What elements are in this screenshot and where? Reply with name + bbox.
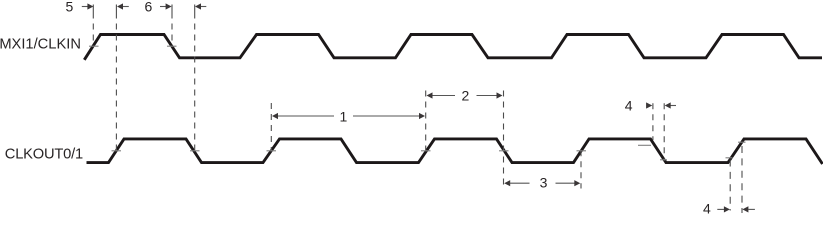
dimension 6 right arrow [195,3,206,9]
svg-text:3: 3 [540,175,548,191]
tick CLKOUT rise 4 midpoint [577,150,587,152]
tick CLKOUT rise 1 midpoint [112,150,122,152]
dimension 5 left arrow [82,3,94,9]
svg-text:4: 4 [625,97,633,113]
svg-text:MXI1/CLKIN: MXI1/CLKIN [0,36,81,52]
tick CLKOUT fall 4 upper reference [638,144,651,146]
tick CLKOUT fall 3 midpoint [499,150,509,152]
dimension 4 top right arrow [665,102,676,108]
dashed line A (CLKIN rise 1 midpoint, x=93.3) [92,5,94,47]
dashed line B (CLKOUT rise 1 midpoint, x=116.4) [115,5,117,151]
tick CLKOUT rise 5 upper reference [738,141,746,143]
dashed line H (CLKOUT rise 4 midpoint, x=581) [580,150,582,188]
waveform CLKOUT0/1 [87,139,823,164]
svg-text:CLKOUT0/1: CLKOUT0/1 [5,146,83,162]
dashed line L (CLKOUT rise 5 end, x=742.3) [741,146,743,213]
tick CLKOUT fall 1 midpoint [190,150,200,152]
dimension 3 arrow [504,180,580,186]
dashed line D (CLKOUT fall 1 midpoint, x=194.7) [194,5,196,151]
svg-text:6: 6 [145,0,153,15]
dashed line I (CLKOUT fall 4 start, x=652.7) [652,103,654,140]
dimension 4 bottom left arrow [717,206,730,212]
waveform MXI1/CLKIN [84,35,822,60]
svg-text:5: 5 [66,0,74,15]
tick CLKOUT rise 3 midpoint [421,150,431,152]
dashed line C (CLKIN fall 1 midpoint, x=172) [171,5,173,47]
tick CLKIN fall 1 midpoint [167,45,177,47]
tick CLKOUT rise 5 lower reference [726,157,733,159]
dimension 2 arrow [427,92,503,98]
dimension 5 right arrow [117,3,129,9]
dashed line G (CLKOUT fall 3 midpoint, x=503.5) [503,88,505,189]
dashed line F (CLKOUT rise 3 midpoint, x=425.7) [425,88,427,151]
dashed line K (CLKOUT rise 5 start, x=730) [729,160,731,211]
dimension 4 bottom right arrow [742,206,755,212]
svg-text:1: 1 [340,109,348,125]
dashed line J (CLKOUT fall 4 end, x=664.3) [663,103,665,161]
tick CLKOUT fall 4 lower reference [660,159,667,161]
svg-text:4: 4 [703,201,711,217]
dimension 4 top left arrow [646,102,652,108]
dashed line E (CLKOUT rise 2 midpoint, x=271.3) [270,103,272,151]
tick CLKOUT rise 2 midpoint [267,150,277,152]
dimension 1 arrow (double headed with gap for label) [272,113,425,119]
svg-text:2: 2 [462,88,470,104]
tick CLKIN rise 1 midpoint [89,45,99,47]
dimension 6 left arrow [160,3,172,9]
